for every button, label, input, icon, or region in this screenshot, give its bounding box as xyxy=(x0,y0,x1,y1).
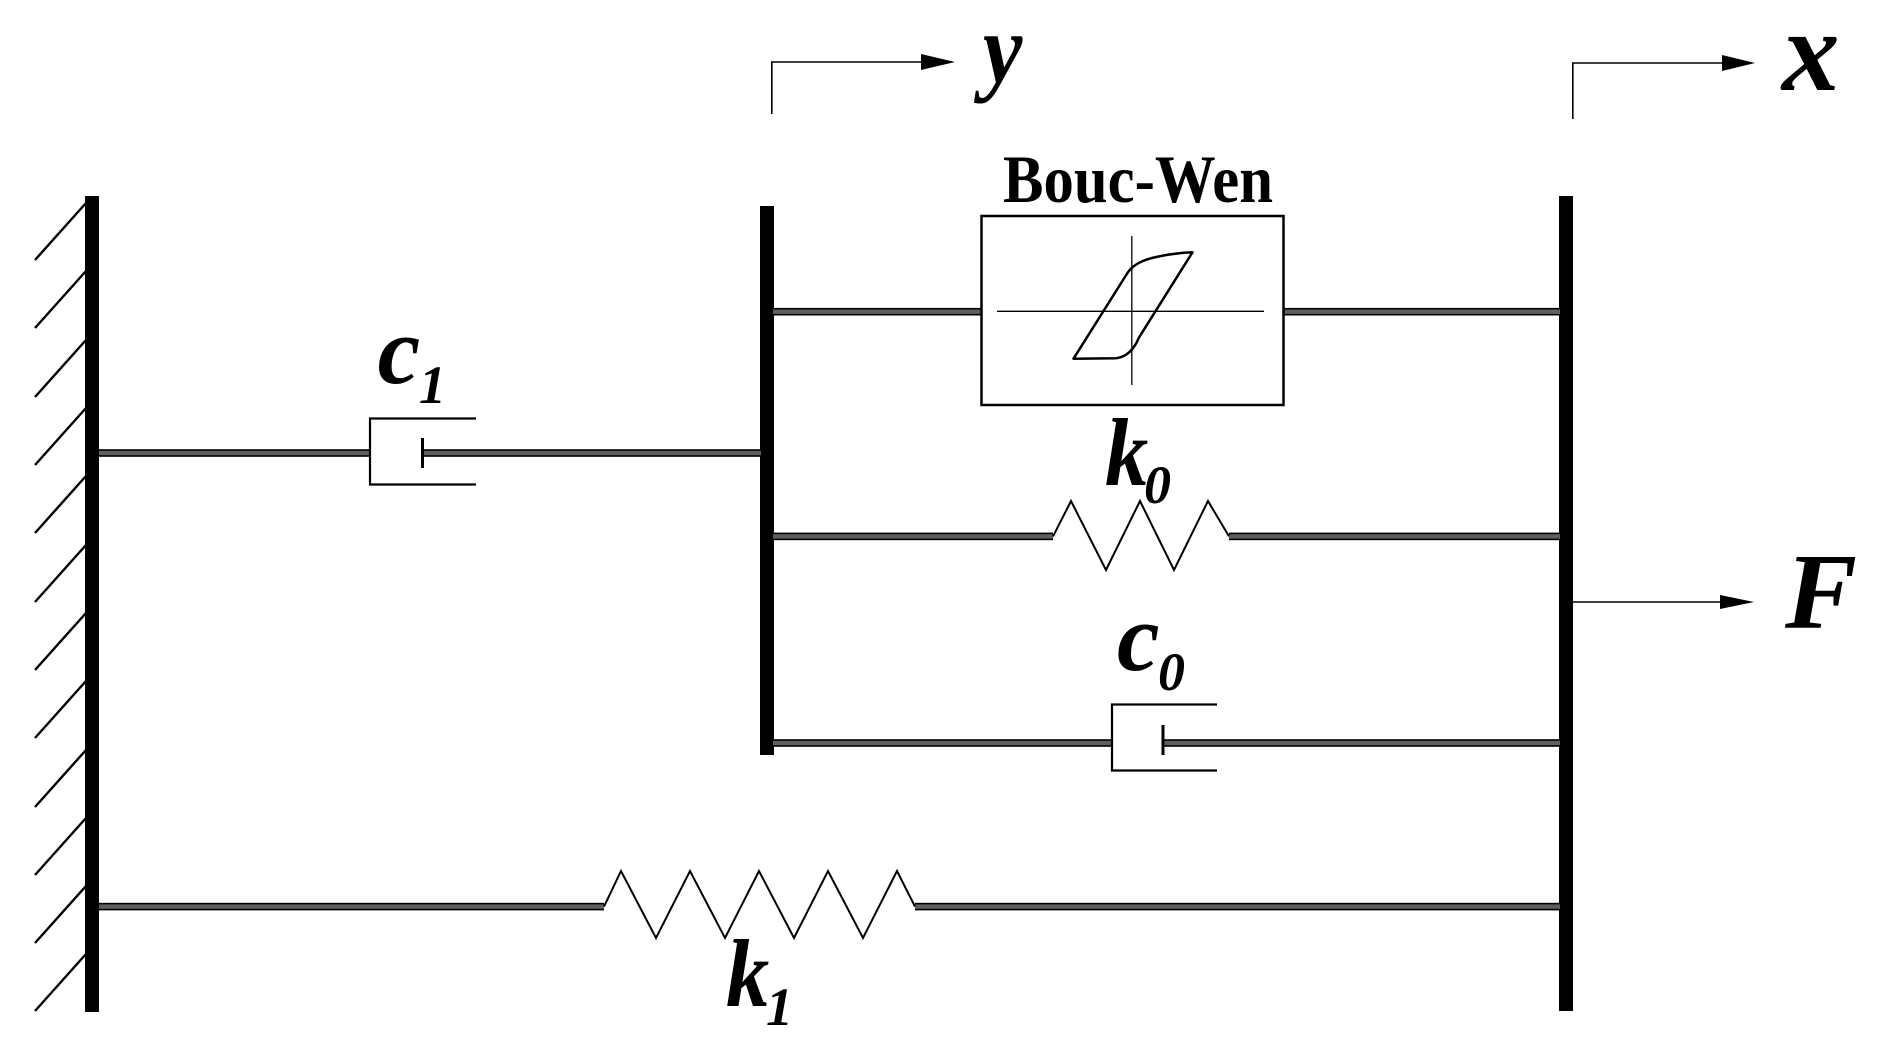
svg-text:Bouc-Wen: Bouc-Wen xyxy=(1003,141,1273,217)
rod Bouc-Wen box to plate x xyxy=(1283,308,1560,316)
coordinate marker x: arrowhead xyxy=(1722,55,1755,71)
plate x (right rigid plate) xyxy=(1559,196,1573,1011)
plate y (middle rigid plate) xyxy=(760,206,774,755)
Bouc-Wen hysteresis loop xyxy=(1074,252,1193,358)
force F arrowhead xyxy=(1720,595,1754,609)
svg-text:x: x xyxy=(1780,0,1840,115)
rod plate y to damper c0 xyxy=(773,739,1112,747)
Bouc-Wen element box xyxy=(982,216,1284,405)
coordinate marker y: arrowhead xyxy=(921,54,955,70)
rod damper c1 piston to plate y xyxy=(421,449,761,457)
damper C1 cylinder xyxy=(370,419,476,485)
svg-text:0: 0 xyxy=(1158,642,1185,702)
damper C0 piston xyxy=(1162,725,1165,755)
svg-text:k: k xyxy=(726,921,769,1027)
svg-text:k: k xyxy=(1105,400,1148,506)
rod plate y to spring k0 xyxy=(773,533,1053,541)
rod spring k1 to plate x xyxy=(915,903,1560,911)
Bouc-Wen vertical axis xyxy=(1131,236,1133,385)
rod wall to spring k1 xyxy=(99,903,604,911)
damper C0 cylinder xyxy=(1112,705,1217,771)
spring k0 xyxy=(1053,501,1229,570)
damper C1 piston xyxy=(421,438,424,468)
svg-text:1: 1 xyxy=(419,355,446,415)
rod wall to damper c1 xyxy=(99,449,370,457)
rod damper c0 piston to plate x xyxy=(1162,739,1560,747)
rod spring k0 to plate x xyxy=(1229,533,1560,541)
svg-text:F: F xyxy=(1784,533,1857,652)
Bouc-Wen horizontal axis xyxy=(997,310,1264,312)
wall (fixed support, left) xyxy=(85,196,99,1012)
svg-text:0: 0 xyxy=(1144,455,1171,515)
coordinate marker y: bracket line xyxy=(772,62,921,114)
svg-text:c: c xyxy=(378,297,421,404)
svg-text:c: c xyxy=(1117,584,1160,691)
svg-text:1: 1 xyxy=(766,977,793,1037)
force F arrow line xyxy=(1573,601,1720,603)
rod plate y to Bouc-Wen box xyxy=(773,308,982,316)
wall hatching xyxy=(35,203,86,1011)
spring k1 xyxy=(604,871,915,938)
coordinate marker x: bracket line xyxy=(1573,63,1722,119)
